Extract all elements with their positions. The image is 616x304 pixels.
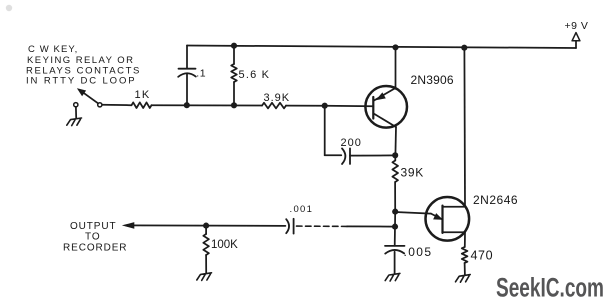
svg-text:TO: TO <box>85 232 101 243</box>
svg-text:2N3906: 2N3906 <box>411 73 454 87</box>
svg-text:RECORDER: RECORDER <box>63 242 127 253</box>
svg-text:+9 V: +9 V <box>565 20 589 32</box>
svg-text:C W KEY,: C W KEY, <box>28 44 78 55</box>
svg-text:.001: .001 <box>290 204 314 215</box>
svg-text:IN RTTY DC LOOP: IN RTTY DC LOOP <box>26 76 137 87</box>
svg-text:200: 200 <box>341 137 362 149</box>
svg-text:.005: .005 <box>404 245 433 259</box>
svg-text:2N2646: 2N2646 <box>473 193 518 207</box>
svg-text:SeekIC.com: SeekIC.com <box>496 273 604 303</box>
svg-text:3.9K: 3.9K <box>264 92 291 104</box>
svg-text:39K: 39K <box>401 165 424 179</box>
svg-text:470: 470 <box>471 248 494 262</box>
svg-text:1K: 1K <box>135 89 151 101</box>
svg-text:5.6 K: 5.6 K <box>239 69 271 81</box>
svg-text:.1: .1 <box>196 68 206 80</box>
svg-text:OUTPUT: OUTPUT <box>70 221 117 232</box>
svg-text:100K: 100K <box>211 239 238 251</box>
